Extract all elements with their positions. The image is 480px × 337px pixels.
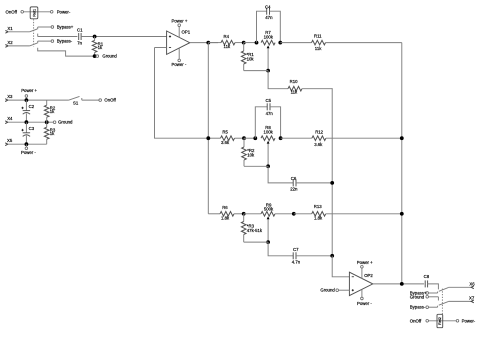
junction X5 bbox=[25, 142, 29, 146]
svg-text:OP1: OP1 bbox=[182, 30, 191, 35]
svg-text:C5: C5 bbox=[266, 98, 272, 103]
junction OP1 output bbox=[206, 41, 210, 45]
wire X5 row bbox=[8, 143, 47, 145]
svg-text:X4: X4 bbox=[7, 116, 13, 121]
junction *R3/wiper bbox=[266, 240, 270, 244]
wire wiper down to C7 bbox=[268, 242, 293, 256]
op-amp OP2 bbox=[349, 272, 372, 295]
node A junction bbox=[93, 35, 97, 39]
pin X7 bbox=[471, 300, 474, 303]
svg-text:S1: S1 bbox=[73, 101, 79, 106]
wire R4 to C4 branch bbox=[244, 42, 257, 44]
wire C1 to node A bbox=[81, 36, 167, 38]
resistor R11 11k bbox=[280, 42, 311, 44]
svg-text:C4: C4 bbox=[265, 4, 271, 9]
svg-text:1.8k: 1.8k bbox=[314, 215, 323, 220]
net Bypass- (left) bbox=[51, 40, 54, 43]
junction R9 right bbox=[292, 212, 296, 216]
R7 wiper arm bbox=[267, 48, 269, 71]
resistor R12 3.6k bbox=[281, 137, 312, 139]
svg-text:C6: C6 bbox=[291, 176, 297, 181]
junction R13/right bus bbox=[400, 212, 404, 216]
op-amp OP1 bbox=[167, 31, 190, 54]
svg-text:7n: 7n bbox=[77, 41, 82, 46]
net Power - (left) bbox=[25, 144, 27, 147]
wire OP1 output bbox=[190, 42, 218, 44]
resistor R2 1k bbox=[46, 100, 48, 105]
pin X3 bbox=[5, 99, 8, 102]
wire *R1 bottom bbox=[244, 70, 268, 72]
R9 wiper arm bbox=[267, 219, 269, 243]
svg-text:11k: 11k bbox=[315, 46, 322, 51]
switch Rel1 contact b: arm bbox=[30, 43, 38, 46]
svg-text:X6: X6 bbox=[469, 282, 475, 287]
svg-text:Bypass-: Bypass- bbox=[410, 305, 426, 310]
mechanical link Rel1 (dashed) bbox=[33, 19, 35, 46]
svg-text:Bypass-: Bypass- bbox=[57, 39, 73, 44]
svg-text:R6: R6 bbox=[222, 205, 228, 210]
svg-text:1.8k: 1.8k bbox=[221, 215, 230, 220]
resistor R7 100k (trim) bbox=[261, 40, 275, 45]
pin X1 bbox=[5, 30, 8, 33]
svg-text:OnOff: OnOff bbox=[104, 98, 116, 103]
junction R5 output node bbox=[206, 136, 210, 140]
svg-text:11k: 11k bbox=[291, 89, 298, 94]
switch contact a throw to C1 bbox=[37, 34, 39, 37]
svg-text:Ground: Ground bbox=[410, 294, 425, 299]
junction C5 right bbox=[279, 136, 283, 140]
wire R10 to mid bus bbox=[331, 89, 333, 256]
wire right bus down bbox=[401, 43, 403, 284]
svg-text:Ground: Ground bbox=[320, 287, 335, 292]
wire mid bus to OP2 inverting input bbox=[332, 256, 349, 277]
svg-text:Ground: Ground bbox=[58, 120, 73, 125]
svg-text:Bypass+: Bypass+ bbox=[57, 25, 74, 30]
svg-text:4.7n: 4.7n bbox=[292, 260, 301, 265]
OP2 power - lead bbox=[361, 289, 363, 297]
net Bypass+ (left) bbox=[51, 26, 54, 29]
junction X3/power bbox=[25, 98, 29, 102]
relay Rel1 coil (top-left) bbox=[24, 11, 51, 13]
wire to pin X6 bbox=[449, 286, 472, 288]
R8 wiper arm bbox=[267, 143, 269, 166]
svg-text:Power-: Power- bbox=[462, 318, 476, 323]
svg-text:X1: X1 bbox=[7, 26, 13, 31]
svg-text:Power +: Power + bbox=[21, 88, 37, 93]
svg-text:R11: R11 bbox=[314, 33, 322, 38]
svg-text:47n: 47n bbox=[265, 15, 273, 20]
resistor R8 100k (trim) bbox=[261, 136, 275, 141]
resistor R10 11k bbox=[288, 86, 302, 91]
svg-text:R13: R13 bbox=[314, 204, 322, 209]
resistor R4 11k bbox=[208, 42, 221, 44]
wire X1 to switch common bbox=[8, 31, 30, 33]
wire OP2 output bbox=[373, 283, 424, 285]
svg-text:C1: C1 bbox=[77, 28, 83, 33]
svg-text:10k: 10k bbox=[247, 152, 255, 157]
trimmer *R3 47k-51k bbox=[243, 214, 245, 222]
capacitor C3 (polarized) bbox=[25, 122, 27, 133]
svg-text:C3: C3 bbox=[29, 126, 35, 131]
capacitor C1 7n bbox=[78, 33, 80, 40]
svg-text:C8: C8 bbox=[424, 274, 430, 279]
svg-text:500k: 500k bbox=[264, 206, 274, 211]
svg-text:Rel2: Rel2 bbox=[438, 317, 442, 325]
switch S1 contact bbox=[81, 98, 83, 100]
svg-text:R4: R4 bbox=[224, 34, 230, 39]
pin X5 bbox=[5, 143, 8, 146]
resistor R6 1.8k bbox=[220, 212, 234, 217]
switch contact b throw to ground net bbox=[38, 48, 93, 56]
svg-text:X7: X7 bbox=[469, 296, 475, 301]
svg-text:Power +: Power + bbox=[172, 19, 188, 24]
switch contact b throw from Bypass- bbox=[429, 306, 438, 308]
junction C6/mid bus bbox=[330, 181, 334, 185]
net Ground (power) bbox=[53, 121, 56, 124]
svg-text:Power +: Power + bbox=[357, 260, 373, 265]
junction C7/mid bus bbox=[330, 254, 334, 258]
svg-text:Rel1: Rel1 bbox=[33, 9, 37, 17]
OP1 power + lead bbox=[178, 27, 180, 38]
net OnOff (power) bbox=[99, 99, 102, 102]
svg-text:OnOff: OnOff bbox=[6, 9, 18, 14]
svg-text:Power-: Power- bbox=[57, 9, 71, 14]
junction C5 left bbox=[253, 136, 257, 140]
wire OP1 inverting input bbox=[155, 47, 167, 49]
net Power + (left) bbox=[25, 95, 28, 98]
wire X4 row bbox=[8, 121, 54, 123]
wire output bus down bbox=[207, 43, 209, 214]
resistor R5 3.6k bbox=[208, 137, 220, 139]
switch Rel1 contact a: arm bbox=[30, 29, 38, 32]
trimmer *R2 10k bbox=[243, 138, 245, 147]
svg-text:X2: X2 bbox=[7, 40, 13, 45]
OP2 power + lead bbox=[361, 268, 363, 278]
switch Rel2 contact a: arm bbox=[439, 287, 449, 291]
wire X3 row bbox=[8, 99, 69, 101]
junction R12/right bus bbox=[400, 136, 404, 140]
wire bus to R6 bbox=[208, 213, 220, 215]
svg-text:R12: R12 bbox=[315, 129, 323, 134]
resistor R3 1k bbox=[46, 122, 48, 127]
svg-text:100k: 100k bbox=[264, 129, 274, 134]
switch S1 arm bbox=[69, 96, 80, 100]
svg-text:3.6k: 3.6k bbox=[221, 140, 230, 145]
wire to pin X7 bbox=[449, 300, 472, 302]
capacitor C7 4.7n bbox=[292, 252, 294, 259]
pin X4 bbox=[5, 121, 8, 124]
svg-text:3.6k: 3.6k bbox=[314, 142, 323, 147]
wire R5 to C5 branch bbox=[244, 137, 255, 139]
ground node junction bbox=[93, 54, 97, 58]
mechanical link Rel2 (dashed) bbox=[441, 289, 443, 314]
net Ground (top-left) bbox=[96, 55, 99, 58]
potentiometer R9 500k bbox=[244, 213, 261, 215]
svg-text:Ground: Ground bbox=[102, 54, 117, 59]
capacitor C2 (polarized) bbox=[25, 100, 27, 111]
svg-text:11k: 11k bbox=[224, 44, 231, 49]
svg-text:C2: C2 bbox=[29, 104, 35, 109]
wire wiper down to C6 bbox=[268, 166, 293, 183]
svg-text:OP2: OP2 bbox=[364, 273, 373, 278]
svg-text:10k: 10k bbox=[247, 56, 255, 61]
OP1 power - lead bbox=[178, 48, 180, 59]
switch contact a throw from Bypass+ bbox=[429, 292, 438, 294]
switch contact a throw to Bypass+ bbox=[37, 27, 39, 29]
junction R6/*R3 bbox=[242, 212, 246, 216]
svg-text:22n: 22n bbox=[290, 187, 298, 192]
junction *R1/wiper bbox=[266, 69, 270, 73]
svg-text:47k-51k: 47k-51k bbox=[247, 228, 263, 233]
net Bypass- (right) bbox=[426, 306, 429, 309]
wire X2 to switch common bbox=[8, 45, 30, 47]
junction X4/R2 bbox=[45, 120, 49, 124]
wire OP1 feedback bbox=[155, 48, 209, 139]
net Ground (right) bbox=[426, 296, 429, 299]
capacitor C8 bbox=[424, 280, 426, 287]
capacitor C5 47n bbox=[255, 107, 267, 138]
wire ground to OP2 + input bbox=[339, 289, 350, 291]
svg-text:Power -: Power - bbox=[172, 62, 187, 67]
svg-text:C7: C7 bbox=[293, 247, 299, 252]
relay Rel2 coil (bottom-right) bbox=[429, 320, 457, 322]
junction X4/C2 bbox=[25, 120, 29, 124]
switch contact b throw to Bypass- bbox=[37, 41, 39, 43]
resistor R13 1.8k bbox=[294, 213, 312, 215]
wire *R3 bottom bbox=[244, 241, 268, 243]
svg-text:X5: X5 bbox=[7, 138, 13, 143]
svg-text:Power -: Power - bbox=[357, 301, 372, 306]
svg-text:X3: X3 bbox=[7, 94, 13, 99]
pin X2 bbox=[5, 45, 8, 48]
svg-text:R10: R10 bbox=[290, 79, 298, 84]
junction OP2 output/right bus bbox=[400, 282, 404, 286]
wire C8 to switch throw bbox=[428, 284, 439, 290]
switch Rel2 contact b: arm bbox=[439, 301, 449, 305]
net OnOff (bottom-right) bbox=[426, 320, 429, 323]
svg-text:Power -: Power - bbox=[21, 150, 36, 155]
svg-text:100k: 100k bbox=[264, 34, 274, 39]
net Ground (OP2) bbox=[336, 289, 339, 292]
pin X6 bbox=[471, 286, 474, 289]
junction C4 right bbox=[278, 41, 282, 45]
capacitor C4 47n bbox=[257, 11, 267, 42]
capacitor C6 22n bbox=[292, 179, 294, 186]
junction R4/*R1 bbox=[242, 41, 246, 45]
svg-text:R5: R5 bbox=[222, 130, 228, 135]
svg-text:OnOff: OnOff bbox=[410, 318, 422, 323]
trimmer *R1 10k bbox=[243, 43, 245, 51]
switch contact b throw from Ground bbox=[429, 296, 439, 298]
junction *R2/wiper bbox=[266, 164, 270, 168]
junction C4 left bbox=[255, 41, 259, 45]
junction R5/*R2 bbox=[242, 136, 246, 140]
svg-text:47n: 47n bbox=[266, 111, 274, 116]
wire *R2 bottom bbox=[244, 165, 268, 167]
net OnOff (top-left) bbox=[21, 11, 24, 14]
net Bypass+ (right) bbox=[426, 292, 429, 295]
resistor R1 1k bbox=[94, 37, 96, 41]
wire wiper down to R10 bbox=[268, 71, 288, 89]
net Power- (bottom-right) bbox=[456, 320, 459, 323]
net Power- (top-left) bbox=[50, 11, 53, 14]
